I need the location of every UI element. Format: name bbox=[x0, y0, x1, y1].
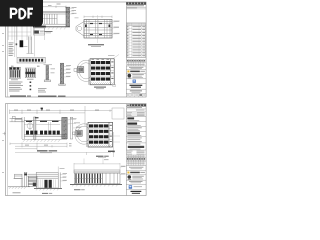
s2 lower dim rows bbox=[10, 143, 67, 150]
title block sheet2 drawn-checked rows bbox=[126, 151, 146, 155]
s1 notes column text bbox=[9, 43, 14, 56]
s1 left legend table grid bbox=[8, 27, 31, 41]
s1 elevation leader notes bbox=[70, 7, 79, 18]
title block sheet1 stamp band bbox=[126, 2, 146, 4]
s1 plan centerline bbox=[97, 15, 99, 43]
s1 pump house elevation beam bbox=[43, 12, 70, 24]
title block sheet1 consultant logo (yellow) box bbox=[126, 70, 146, 73]
s1 ladder detail bbox=[27, 37, 34, 54]
title block sheet2 info rows bbox=[126, 112, 146, 117]
s1 trash rack leader and base marks bbox=[92, 55, 120, 87]
s2 section mid walls bbox=[15, 117, 60, 140]
s1 small schedule box bbox=[34, 28, 45, 40]
s2 center elevation dark doors bbox=[44, 180, 51, 188]
s2 center elevation ground bbox=[34, 188, 62, 190]
title block sheet1 contractor logo (dark) box bbox=[126, 73, 146, 78]
sheet 1 border bbox=[6, 2, 147, 97]
s2 right elevation posts part bbox=[102, 173, 120, 184]
title block sheet2 text box C bbox=[126, 127, 146, 131]
s2 section B-B label bbox=[96, 156, 109, 158]
s1 strip captions bbox=[11, 66, 40, 67]
title block sheet2 thin cells row bbox=[126, 155, 146, 158]
s1 elevation screen column (hatched) bbox=[65, 7, 70, 27]
s1 schedule dark header band bbox=[33, 26, 46, 28]
title block sheet2 project text box bbox=[126, 181, 146, 184]
s1 margin tick marks bbox=[2, 33, 4, 52]
s1 plan drawing bbox=[76, 20, 112, 39]
s2 trash screen main grid bbox=[87, 122, 113, 147]
s2 long ground line bbox=[15, 151, 111, 153]
s1 elevation dimension line bbox=[43, 6, 66, 8]
s2 center elevation caption bbox=[42, 192, 52, 195]
s2 left elevation hatched tank bbox=[21, 176, 37, 187]
s2 section pump circle bbox=[27, 122, 33, 131]
s1 plan title bbox=[88, 44, 104, 47]
s1 column detail B bbox=[59, 63, 71, 85]
title block sheet1 header text row bbox=[126, 5, 146, 9]
s2 center elevation dim text bbox=[60, 167, 65, 170]
s2 left elevation small hut bbox=[14, 172, 28, 187]
title block sheet1 revision table bbox=[126, 23, 146, 57]
s1 detail box right bbox=[25, 68, 35, 78]
s2 section crane rail line bbox=[24, 124, 60, 126]
s2 section lower dark blocks right bbox=[40, 131, 60, 135]
title block sheet1 association box bbox=[126, 66, 146, 69]
s1 elevation title bbox=[44, 31, 53, 33]
s2 right elevation leaders bbox=[120, 166, 126, 175]
s2 top dimension lines bbox=[10, 106, 125, 126]
title block sheet2 association box bbox=[126, 167, 146, 171]
title block sheet1 drawing title box bbox=[126, 84, 146, 88]
s1 squares legend strip bbox=[17, 57, 45, 63]
s1 elevation ground bbox=[42, 27, 70, 30]
s2 section floor hatch bbox=[22, 139, 67, 142]
s2 right elevation ground bbox=[70, 184, 122, 186]
s1 trash rack title bbox=[94, 87, 106, 90]
s2 left elevation ground bbox=[8, 187, 30, 189]
s2 right elevation caption bbox=[74, 188, 85, 191]
s1 small text block lower center bbox=[38, 88, 47, 92]
title block sheet2 consultant logo (yellow) box bbox=[126, 172, 146, 175]
s1 trash rack arcs bbox=[77, 60, 96, 81]
s1 trash rack inlet box bbox=[74, 67, 84, 73]
s2 center elevation leaders bbox=[60, 173, 67, 181]
s2 trash screen inlet box bbox=[73, 130, 83, 136]
s2 section roof slab dark bars bbox=[26, 117, 59, 122]
s1 column detail A bbox=[44, 65, 56, 82]
s1 plan dark door marks bbox=[85, 23, 110, 35]
s2 section lower dark blocks left bbox=[26, 131, 37, 135]
s1 black valve block bbox=[16, 40, 28, 47]
s1 plan right leaders bbox=[112, 21, 120, 34]
s2 section title strip bbox=[37, 150, 57, 153]
title block sheet2 scale cells band bbox=[126, 158, 146, 162]
s2 section outer box bbox=[24, 121, 62, 137]
s1 lower notes list bbox=[9, 82, 23, 92]
s2 section inner wall lines bbox=[49, 122, 51, 134]
s1 left long vertical lines bbox=[15, 27, 35, 58]
s1 notes list markers bbox=[30, 82, 32, 91]
s1 notes caption bbox=[10, 96, 31, 97]
title block sheet2 contractor logo (dark) box bbox=[126, 175, 146, 180]
title block sheet1 client logo (blue) box bbox=[126, 79, 146, 83]
s2 section left steps bbox=[10, 116, 25, 139]
s1 trash rack main grid bbox=[89, 59, 115, 85]
title block sheet2 notes box B bbox=[126, 123, 146, 127]
s2 dim row texts bbox=[25, 143, 72, 146]
s2 dim texts bbox=[14, 109, 99, 112]
s2 trash screen arcs bbox=[75, 124, 94, 144]
s1 detail captions bbox=[11, 79, 34, 80]
s2 right elevation screen band bbox=[74, 173, 102, 184]
s2 center elevation panel lines bbox=[38, 180, 55, 188]
s2 section hatched wall column bbox=[62, 117, 67, 138]
title block sheet1 scale cell bands bbox=[126, 60, 146, 66]
s2 section right thin column bbox=[70, 117, 73, 139]
s2 left elevation caption bbox=[13, 191, 21, 194]
s2 centerline cross outside left border bbox=[3, 132, 6, 135]
s2 section base slab lines bbox=[24, 135, 67, 136]
title block sheet2 address box bbox=[126, 144, 146, 150]
s2 right long elevation bbox=[74, 159, 120, 174]
title block sheet2 text box E bbox=[126, 138, 146, 143]
s2 section leaders right bbox=[66, 118, 81, 128]
s1 plan top dim line bbox=[84, 16, 112, 18]
s1 elevation dim text bbox=[48, 4, 61, 6]
s2 right vertical line with flag bbox=[112, 132, 120, 157]
s2 center elevation building bbox=[28, 167, 61, 189]
title block sheet2 notes box A bbox=[126, 117, 146, 121]
s2 key plan empty box bbox=[112, 108, 124, 119]
title block sheet2 box D bbox=[126, 132, 146, 136]
s1 detail box left bbox=[9, 67, 20, 78]
title block sheet2 stamp band bbox=[127, 104, 146, 106]
title block sheet2 drawing title box bbox=[131, 191, 142, 194]
title block sheet1 bottom number strip bbox=[126, 94, 146, 97]
s2 section marker bbox=[41, 108, 43, 111]
s1 bottom title strip bbox=[38, 96, 66, 97]
title block sheet2 header rows bbox=[126, 107, 146, 112]
PDF badge bbox=[0, 0, 46, 29]
sheet 2 border bbox=[6, 104, 147, 196]
title block sheet2 client logo (blue) box bbox=[126, 185, 146, 189]
title block sheet1 subtitle box bbox=[126, 89, 146, 92]
title block sheet2 second cells band bbox=[126, 162, 146, 166]
s2 margin ticks bbox=[2, 140, 4, 173]
